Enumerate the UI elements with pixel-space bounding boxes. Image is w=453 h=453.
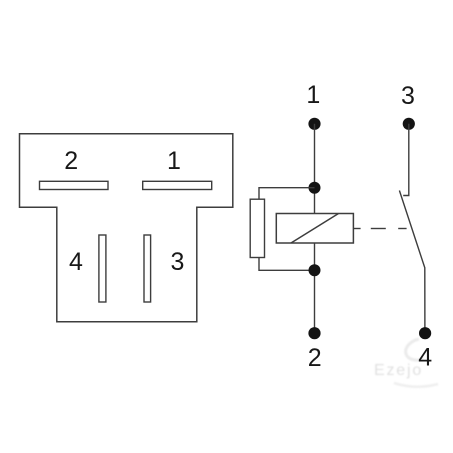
- svg-text:3: 3: [401, 82, 415, 110]
- svg-text:Ezejo: Ezejo: [374, 362, 423, 379]
- pin slot 3: [144, 235, 151, 302]
- terminal 1 dot: [308, 118, 320, 130]
- connector outline: [20, 134, 233, 322]
- junction node bottom: [309, 264, 321, 276]
- relay coil: [276, 214, 353, 244]
- wire resistor bottom to junction: [259, 258, 315, 271]
- wire coil to terminal 2: [314, 243, 316, 333]
- terminal 4 dot: [419, 327, 431, 339]
- switch blade: [399, 191, 425, 334]
- terminal 3 dot: [403, 118, 415, 130]
- resistor: [250, 199, 264, 257]
- dashed actuation line: [353, 228, 406, 230]
- svg-text:2: 2: [64, 147, 78, 175]
- junction node top: [309, 182, 321, 194]
- svg-text:4: 4: [69, 248, 83, 276]
- svg-text:1: 1: [306, 81, 320, 109]
- pin slot 4: [99, 235, 106, 302]
- wire junction to resistor top: [259, 188, 315, 200]
- terminal 2 dot: [308, 327, 320, 339]
- wire terminal 3 fixed contact: [403, 124, 409, 196]
- coil diagonal: [291, 214, 339, 244]
- svg-text:2: 2: [308, 344, 322, 372]
- watermark Ezejo: [374, 339, 438, 387]
- svg-text:3: 3: [171, 248, 185, 276]
- pin slot 1: [143, 181, 212, 189]
- wire terminal 1 to coil: [314, 124, 316, 214]
- svg-text:1: 1: [167, 147, 181, 175]
- pin slot 2: [40, 181, 109, 189]
- svg-text:4: 4: [418, 343, 432, 371]
